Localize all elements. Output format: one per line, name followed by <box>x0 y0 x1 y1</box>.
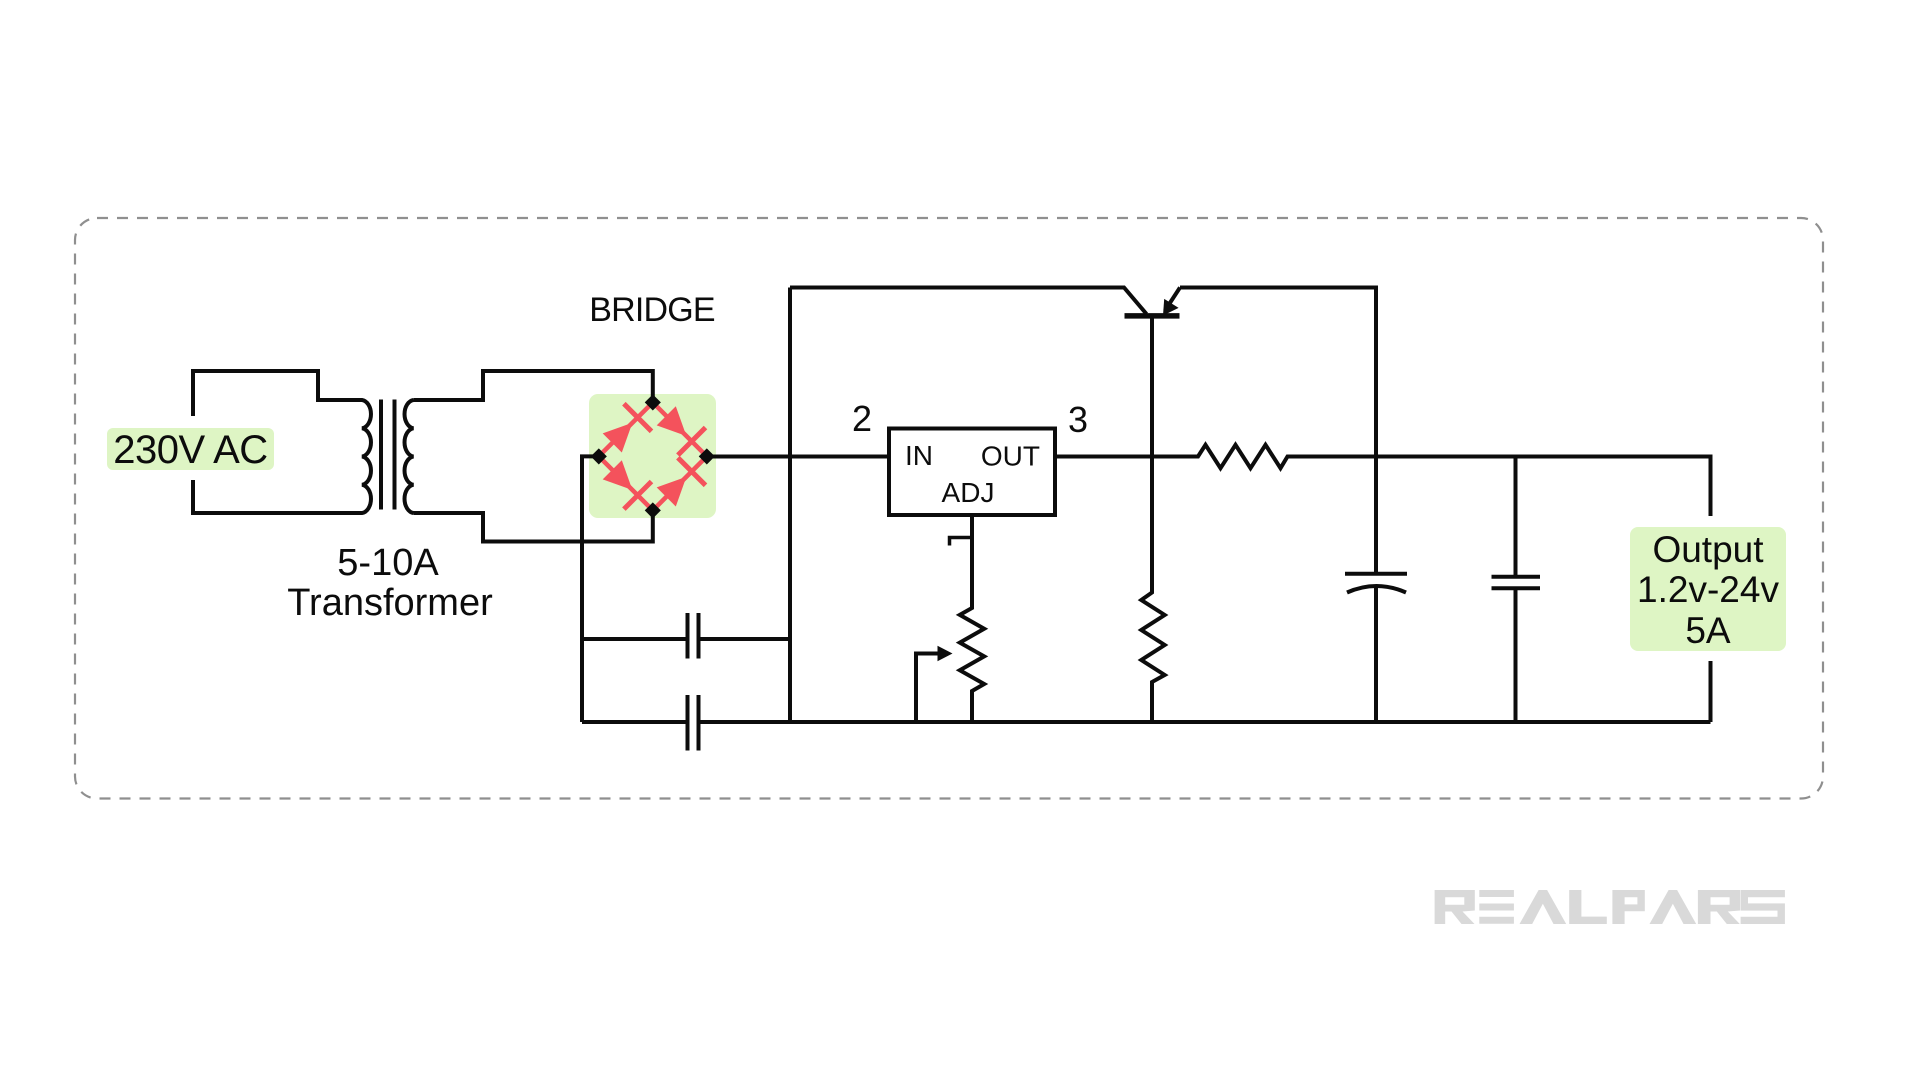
svg-text:IN: IN <box>905 440 933 471</box>
svg-text:BRIDGE: BRIDGE <box>589 291 715 329</box>
svg-text:OUT: OUT <box>981 441 1040 472</box>
svg-text:1.2v-24v: 1.2v-24v <box>1637 569 1779 610</box>
svg-text:5A: 5A <box>1685 610 1731 651</box>
svg-text:Transformer: Transformer <box>287 582 493 624</box>
svg-text:ADJ: ADJ <box>942 477 995 508</box>
svg-text:5-10A: 5-10A <box>337 542 439 584</box>
svg-text:3: 3 <box>1068 399 1088 440</box>
svg-text:Output: Output <box>1652 529 1764 570</box>
svg-text:230V AC: 230V AC <box>113 428 267 472</box>
svg-text:2: 2 <box>852 398 872 439</box>
